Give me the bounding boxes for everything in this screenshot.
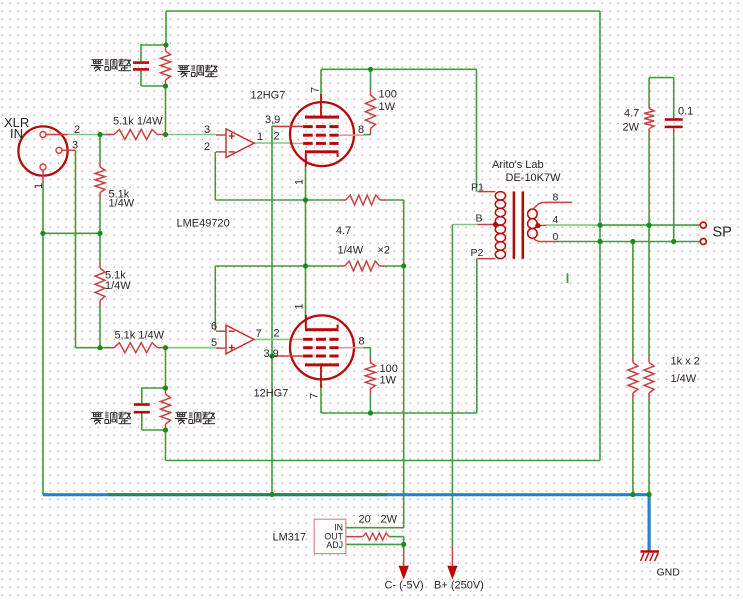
svg-text:2W: 2W	[623, 122, 640, 134]
svg-text:ADJ: ADJ	[326, 540, 343, 550]
svg-text:2: 2	[274, 327, 280, 339]
svg-text:2W: 2W	[381, 514, 398, 526]
svg-text:8: 8	[358, 124, 364, 136]
svg-text:P2: P2	[471, 247, 484, 259]
svg-text:B: B	[476, 213, 483, 225]
svg-text:2: 2	[74, 124, 80, 136]
svg-text:C- (-5V): C- (-5V)	[385, 579, 424, 591]
svg-text:3,9: 3,9	[264, 348, 279, 360]
svg-text:IN: IN	[10, 126, 23, 141]
svg-text:6: 6	[211, 321, 217, 333]
svg-text:100: 100	[380, 363, 398, 375]
svg-text:1k x 2: 1k x 2	[671, 356, 700, 368]
svg-text:LM317: LM317	[273, 532, 307, 544]
svg-text:0.1: 0.1	[678, 106, 693, 118]
svg-text:2: 2	[204, 141, 210, 153]
svg-text:SP: SP	[713, 224, 732, 240]
svg-text:4.7: 4.7	[336, 225, 351, 237]
svg-text:1: 1	[294, 303, 306, 309]
svg-text:B+ (250V): B+ (250V)	[434, 579, 484, 591]
svg-text:1: 1	[33, 183, 45, 189]
svg-text:5.1k 1/4W: 5.1k 1/4W	[115, 329, 165, 341]
svg-text:1/4W: 1/4W	[338, 244, 364, 256]
svg-text:LME49720: LME49720	[177, 218, 230, 230]
svg-text:1/4W: 1/4W	[105, 280, 131, 292]
svg-text:5.1k 1/4W: 5.1k 1/4W	[113, 116, 163, 128]
svg-text:3: 3	[72, 140, 78, 152]
svg-text:7: 7	[309, 393, 321, 399]
svg-text:5: 5	[211, 337, 217, 349]
svg-text:1: 1	[294, 179, 306, 185]
svg-text:20: 20	[359, 514, 371, 526]
svg-text:7: 7	[256, 328, 262, 340]
svg-text:12HG7: 12HG7	[254, 388, 289, 400]
svg-text:1: 1	[257, 131, 263, 143]
svg-text:12HG7: 12HG7	[251, 90, 286, 102]
svg-text:3,9: 3,9	[265, 114, 280, 126]
svg-text:0: 0	[553, 231, 559, 243]
svg-text:8: 8	[359, 335, 365, 347]
svg-text:1W: 1W	[380, 375, 397, 387]
svg-text:2: 2	[274, 131, 280, 143]
svg-text:GND: GND	[657, 567, 681, 579]
svg-text:P1: P1	[471, 182, 484, 194]
svg-text:8: 8	[553, 192, 559, 204]
svg-text:4.7: 4.7	[624, 107, 639, 119]
svg-text:1/4W: 1/4W	[109, 198, 135, 210]
svg-text:Arito's Lab: Arito's Lab	[492, 159, 544, 171]
svg-text:100: 100	[379, 88, 397, 100]
svg-text:DE-10K7W: DE-10K7W	[506, 172, 562, 184]
svg-text:1/4W: 1/4W	[671, 373, 697, 385]
svg-text:1W: 1W	[379, 101, 396, 113]
svg-text:3: 3	[204, 124, 210, 136]
svg-text:7: 7	[310, 87, 322, 93]
svg-text:×2: ×2	[378, 244, 391, 256]
svg-text:4: 4	[553, 214, 559, 226]
